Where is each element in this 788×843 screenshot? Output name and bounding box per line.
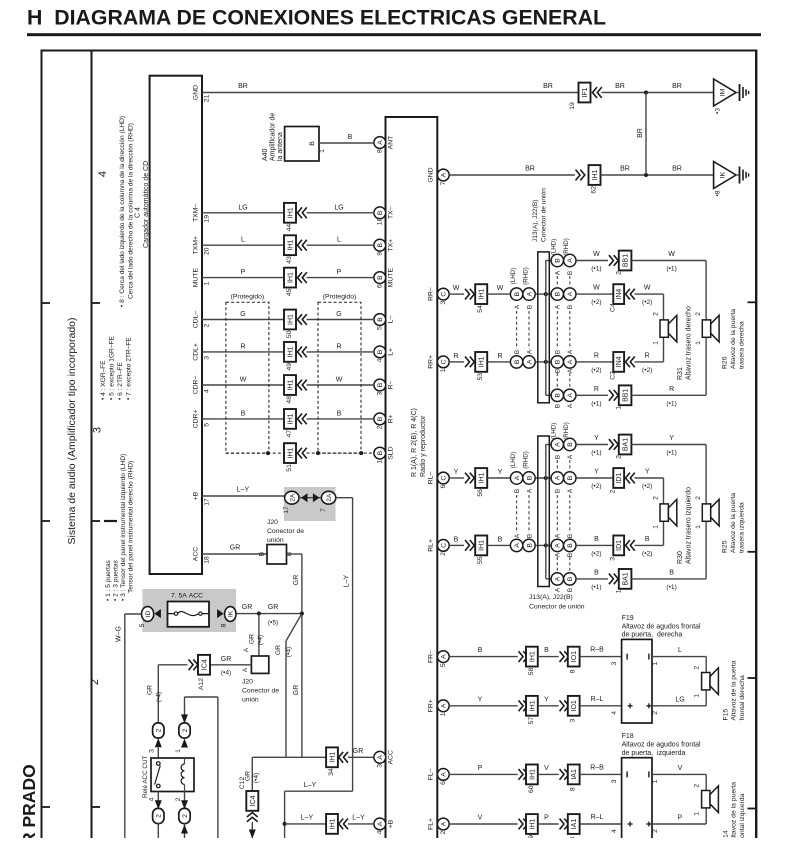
svg-text:A: A — [441, 172, 448, 177]
svg-text:Y: Y — [645, 469, 650, 476]
svg-text:R: R — [453, 353, 458, 360]
svg-text:A12: A12 — [198, 678, 205, 690]
svg-text:B: B — [567, 534, 574, 538]
svg-text:P: P — [337, 269, 342, 276]
svg-text:1: 1 — [440, 368, 447, 372]
svg-text:GR: GR — [221, 656, 232, 663]
svg-text:BR: BR — [615, 83, 625, 90]
svg-text:2A: 2A — [289, 493, 296, 502]
svg-text:A: A — [441, 772, 448, 777]
svg-text:A: A — [527, 349, 534, 354]
svg-text:RR+: RR+ — [428, 355, 435, 369]
svg-text:1: 1 — [319, 149, 326, 153]
svg-text:B: B — [377, 317, 384, 322]
svg-text:Y: Y — [594, 469, 599, 476]
svg-text:B: B — [309, 141, 316, 146]
svg-text:57: 57 — [528, 717, 535, 725]
svg-text:R31: R31 — [677, 367, 684, 380]
svg-text:C: C — [441, 475, 448, 480]
svg-text:B: B — [527, 305, 534, 309]
svg-text:BR: BR — [672, 83, 682, 90]
svg-text:A: A — [567, 368, 574, 373]
svg-text:Altavoz de agudos frontal: Altavoz de agudos frontal — [622, 742, 701, 749]
svg-text:1: 1 — [616, 589, 623, 593]
svg-text:IH1: IH1 — [288, 207, 295, 218]
svg-text:Altavoz de la puerta: Altavoz de la puerta — [730, 493, 737, 553]
svg-text:R: R — [240, 343, 245, 350]
svg-text:TX+: TX+ — [388, 239, 395, 252]
svg-text:W: W — [497, 285, 504, 292]
svg-text:3: 3 — [611, 661, 618, 665]
svg-text:2: 2 — [182, 814, 189, 818]
svg-text:A: A — [377, 821, 384, 826]
svg-text:2: 2 — [695, 496, 702, 500]
svg-text:Radio y reproductor: Radio y reproductor — [420, 415, 427, 477]
svg-text:RL–: RL– — [428, 472, 435, 485]
svg-text:3: 3 — [440, 301, 447, 305]
svg-text:B: B — [669, 569, 674, 576]
svg-text:GR: GR — [293, 575, 300, 586]
svg-text:B: B — [377, 416, 384, 421]
svg-text:(RHD): (RHD) — [563, 238, 570, 256]
svg-text:IH1: IH1 — [529, 700, 536, 711]
svg-text:W: W — [593, 285, 600, 292]
svg-text:(•4): (•4) — [286, 647, 293, 657]
svg-text:2: 2 — [616, 271, 623, 275]
svg-text:W: W — [336, 377, 343, 384]
svg-text:IC4: IC4 — [250, 795, 257, 806]
svg-text:55: 55 — [477, 556, 484, 564]
svg-text:47: 47 — [286, 430, 293, 438]
svg-text:IF1: IF1 — [582, 87, 589, 97]
svg-text:R 1(A), R 2(B), R 4(C): R 1(A), R 2(B), R 4(C) — [411, 408, 418, 477]
svg-text:W: W — [453, 285, 460, 292]
svg-text:B: B — [377, 382, 384, 387]
svg-text:R–B: R–B — [590, 647, 604, 654]
svg-text:(•1): (•1) — [666, 450, 676, 457]
svg-text:IM: IM — [720, 88, 727, 96]
svg-text:A: A — [555, 442, 562, 447]
svg-text:(•2): (•2) — [642, 550, 652, 557]
svg-text:Conector de unión: Conector de unión — [529, 604, 585, 611]
svg-text:Altavoz de la puerta: Altavoz de la puerta — [730, 309, 737, 369]
svg-text:A: A — [555, 587, 562, 592]
svg-text:Conector de unión: Conector de unión — [541, 188, 548, 242]
svg-text:R25: R25 — [722, 540, 729, 553]
svg-text:B: B — [555, 393, 562, 398]
svg-text:• 3 : Tensor del panel instrum: • 3 : Tensor del panel instrumental izqu… — [120, 454, 127, 601]
svg-text:frontal derecha: frontal derecha — [739, 675, 746, 721]
svg-text:1: 1 — [653, 525, 660, 529]
svg-text:J13(A), J22(B): J13(A), J22(B) — [532, 199, 539, 242]
svg-text:B: B — [555, 350, 562, 354]
svg-text:1: 1 — [652, 779, 659, 783]
svg-text:1: 1 — [653, 341, 660, 345]
svg-text:2: 2 — [652, 711, 659, 715]
svg-text:B: B — [478, 647, 483, 654]
svg-text:IK: IK — [228, 610, 235, 617]
svg-text:CDR+: CDR+ — [193, 410, 200, 429]
svg-text:A: A — [555, 533, 562, 538]
svg-text:W: W — [668, 251, 675, 258]
svg-text:RR–: RR– — [428, 287, 435, 301]
svg-text:1: 1 — [376, 460, 383, 464]
svg-text:19: 19 — [203, 215, 210, 223]
svg-text:3: 3 — [376, 391, 383, 395]
svg-text:CDL+: CDL+ — [193, 343, 200, 361]
svg-text:B: B — [514, 350, 521, 354]
svg-text:FL–: FL– — [428, 768, 435, 780]
svg-text:R+: R+ — [388, 414, 395, 423]
svg-text:(•2): (•2) — [642, 483, 652, 490]
svg-text:J13(A), J22(B): J13(A), J22(B) — [529, 594, 573, 601]
svg-text:B: B — [259, 551, 266, 556]
svg-text:R–B: R–B — [590, 764, 604, 771]
svg-text:48: 48 — [286, 396, 293, 404]
svg-text:45: 45 — [286, 288, 293, 296]
svg-text:MUTE: MUTE — [193, 268, 200, 288]
svg-text:A: A — [527, 488, 534, 493]
svg-text:BR: BR — [525, 166, 535, 173]
svg-text:Cargador automático de CD: Cargador automático de CD — [143, 161, 150, 248]
svg-text:Altavoz trasero derecho: Altavoz trasero derecho — [686, 306, 693, 380]
svg-text:• 8 : Cerca del lado izquierdo: • 8 : Cerca del lado izquierdo de la col… — [119, 116, 126, 307]
svg-text:W: W — [593, 251, 600, 258]
svg-text:3: 3 — [376, 764, 383, 768]
svg-text:43: 43 — [286, 256, 293, 264]
svg-text:49: 49 — [286, 363, 293, 371]
svg-text:4: 4 — [611, 711, 618, 715]
svg-text:51: 51 — [286, 464, 293, 472]
svg-text:B: B — [555, 369, 562, 373]
svg-text:ANT: ANT — [388, 136, 395, 150]
svg-text:+B: +B — [388, 819, 395, 828]
svg-text:R30: R30 — [677, 551, 684, 564]
svg-text:53: 53 — [477, 373, 484, 381]
svg-text:2: 2 — [175, 797, 182, 801]
svg-text:60: 60 — [528, 785, 535, 793]
svg-text:8: 8 — [570, 787, 577, 791]
svg-text:GR: GR — [230, 545, 241, 552]
svg-text:6: 6 — [376, 284, 383, 288]
svg-text:IH1: IH1 — [479, 540, 486, 551]
svg-text:2: 2 — [156, 814, 163, 818]
svg-text:IH1: IH1 — [288, 346, 295, 357]
svg-text:B: B — [377, 450, 384, 455]
svg-text:3: 3 — [203, 356, 210, 360]
svg-text:IH1: IH1 — [479, 356, 486, 367]
svg-text:GR: GR — [293, 685, 300, 696]
svg-text:8: 8 — [570, 669, 577, 673]
svg-text:B: B — [555, 489, 562, 493]
svg-text:L–Y: L–Y — [352, 815, 365, 822]
svg-text:A: A — [567, 393, 574, 398]
svg-text:56: 56 — [477, 489, 484, 497]
svg-text:BR: BR — [238, 83, 248, 90]
svg-text:B: B — [514, 291, 521, 296]
svg-text:GR: GR — [353, 748, 364, 755]
svg-text:L–Y: L–Y — [344, 574, 351, 587]
svg-text:B: B — [377, 349, 384, 354]
svg-text:58: 58 — [528, 667, 535, 675]
svg-text:GR: GR — [147, 685, 154, 695]
svg-text:A: A — [441, 654, 448, 659]
svg-text:(RHD): (RHD) — [563, 422, 570, 440]
svg-text:5: 5 — [139, 623, 146, 627]
svg-text:2A: 2A — [326, 493, 333, 502]
svg-text:Y: Y — [478, 696, 483, 703]
svg-text:10: 10 — [376, 217, 383, 225]
svg-text:F15: F15 — [723, 709, 730, 721]
svg-text:B: B — [454, 536, 459, 543]
svg-text:A: A — [567, 359, 574, 364]
svg-text:FR–: FR– — [428, 650, 435, 663]
svg-text:(•4): (•4) — [156, 692, 163, 702]
svg-text:3: 3 — [570, 718, 577, 722]
svg-text:IA1: IA1 — [571, 769, 578, 780]
svg-text:B: B — [527, 534, 534, 538]
svg-text:B: B — [594, 569, 599, 576]
svg-text:Tensor del panel instrumental: Tensor del panel instrumental derecho (R… — [128, 461, 135, 593]
svg-text:Y: Y — [669, 435, 674, 442]
svg-text:L–: L– — [388, 316, 395, 324]
svg-text:7: 7 — [320, 508, 327, 512]
svg-text:(•4): (•4) — [257, 635, 264, 645]
svg-text:B: B — [348, 134, 353, 141]
svg-text:G: G — [336, 311, 341, 318]
svg-text:ID1: ID1 — [616, 472, 623, 483]
svg-text:IO1: IO1 — [571, 651, 578, 662]
svg-text:(•1): (•1) — [666, 584, 676, 591]
svg-text:Amplificador de: Amplificador de — [270, 113, 277, 161]
svg-text:(•4): (•4) — [221, 670, 231, 677]
svg-text:(•1): (•1) — [666, 400, 676, 407]
svg-text:IO1: IO1 — [571, 700, 578, 711]
svg-text:B: B — [514, 359, 521, 364]
svg-text:unión: unión — [242, 697, 259, 704]
svg-text:3: 3 — [610, 557, 617, 561]
svg-text:• 6 : 2TR–FE: • 6 : 2TR–FE — [117, 362, 124, 400]
svg-text:B: B — [498, 536, 503, 543]
svg-text:la antena: la antena — [277, 132, 284, 161]
svg-text:BR: BR — [620, 166, 630, 173]
svg-text:ACC: ACC — [388, 750, 395, 764]
svg-text:A: A — [514, 304, 521, 309]
svg-text:1: 1 — [694, 812, 701, 816]
svg-text:Altavoz trasero izquierdo: Altavoz trasero izquierdo — [686, 487, 693, 564]
svg-text:GR: GR — [242, 604, 253, 611]
svg-text:Cerca del lado derecho de la c: Cerca del lado derecho de la columna de … — [128, 123, 135, 299]
svg-text:B: B — [544, 647, 549, 654]
svg-text:R–L: R–L — [591, 696, 604, 703]
svg-text:A: A — [567, 454, 574, 459]
svg-text:A: A — [514, 533, 521, 538]
svg-text:1: 1 — [440, 712, 447, 716]
svg-text:7. 5A ACC: 7. 5A ACC — [171, 593, 203, 600]
svg-text:TXM+: TXM+ — [193, 236, 200, 254]
svg-text:1: 1 — [695, 525, 702, 529]
svg-text:IH1: IH1 — [479, 472, 486, 483]
svg-text:W: W — [644, 285, 651, 292]
svg-text:C: C — [441, 292, 448, 297]
svg-text:G: G — [240, 311, 245, 318]
svg-text:Sistema de audio (Amplificador: Sistema de audio (Amplificador tipo inco… — [66, 317, 78, 544]
svg-text:B: B — [555, 359, 562, 364]
svg-text:R: R — [594, 386, 599, 393]
svg-text:(RHD): (RHD) — [523, 451, 530, 469]
svg-text:J20: J20 — [267, 519, 278, 526]
svg-text:(•1): (•1) — [591, 266, 601, 273]
svg-text:ID1: ID1 — [616, 540, 623, 551]
svg-text:5: 5 — [376, 326, 383, 330]
svg-text:B: B — [526, 543, 533, 548]
svg-text:L–Y: L–Y — [301, 815, 314, 822]
svg-text:B: B — [555, 404, 562, 408]
svg-text:Altavoz de la puerta: Altavoz de la puerta — [731, 782, 738, 838]
svg-text:A: A — [567, 403, 574, 408]
svg-text:A: A — [567, 291, 574, 296]
svg-text:BR: BR — [672, 166, 682, 173]
svg-text:L: L — [678, 647, 682, 654]
svg-text:6: 6 — [440, 781, 447, 785]
svg-text:4: 4 — [203, 389, 210, 393]
svg-text:A: A — [526, 359, 533, 364]
svg-text:R: R — [645, 352, 650, 359]
svg-text:C2: C2 — [610, 371, 617, 380]
svg-text:2: 2 — [440, 552, 447, 556]
svg-text:• 2 : 3 puertas: • 2 : 3 puertas — [113, 560, 120, 601]
svg-text:2: 2 — [156, 728, 163, 732]
svg-text:C4: C4 — [610, 303, 617, 312]
svg-text:2: 2 — [695, 312, 702, 316]
svg-text:4: 4 — [611, 829, 618, 833]
svg-text:IH1: IH1 — [288, 413, 295, 424]
svg-text:BA1: BA1 — [623, 572, 630, 585]
svg-text:2: 2 — [610, 489, 617, 493]
svg-text:A: A — [567, 349, 574, 354]
svg-text:L: L — [241, 237, 245, 244]
svg-text:5: 5 — [203, 423, 210, 427]
svg-text:GR: GR — [275, 645, 282, 655]
svg-text:Y: Y — [594, 435, 599, 442]
svg-text:1: 1 — [652, 661, 659, 665]
svg-text:BB1: BB1 — [623, 389, 630, 402]
svg-text:L–Y: L–Y — [237, 487, 250, 494]
svg-text:CDR–: CDR– — [193, 376, 200, 395]
svg-text:R: R — [336, 343, 341, 350]
svg-text:F18: F18 — [622, 733, 634, 740]
svg-text:P: P — [241, 269, 246, 276]
svg-text:1: 1 — [694, 694, 701, 698]
svg-text:B: B — [514, 489, 521, 493]
svg-text:IA1: IA1 — [571, 819, 578, 830]
svg-text:2: 2 — [203, 323, 210, 327]
svg-text:(•2): (•2) — [591, 483, 601, 490]
svg-text:IH1: IH1 — [592, 169, 599, 180]
svg-text:IN4: IN4 — [616, 289, 623, 300]
svg-text:4: 4 — [376, 358, 383, 362]
svg-text:TX–: TX– — [388, 206, 395, 219]
svg-text:17: 17 — [203, 498, 210, 506]
svg-text:B: B — [555, 455, 562, 459]
svg-text:RL+: RL+ — [428, 539, 435, 552]
svg-text:frontal izquierda: frontal izquierda — [739, 793, 746, 838]
svg-text:(Protegido): (Protegido) — [323, 294, 357, 301]
svg-text:B: B — [377, 275, 384, 280]
svg-text:1: 1 — [695, 341, 702, 345]
svg-text:BR: BR — [543, 83, 553, 90]
svg-text:3: 3 — [92, 427, 104, 433]
svg-text:1: 1 — [203, 281, 210, 285]
svg-text:B: B — [567, 553, 574, 557]
svg-text:A: A — [377, 140, 384, 145]
svg-text:A: A — [555, 576, 562, 581]
svg-text:34: 34 — [328, 768, 335, 776]
svg-text:LG: LG — [675, 696, 684, 703]
svg-text:62: 62 — [591, 186, 598, 194]
svg-text:IH1: IH1 — [529, 651, 536, 662]
svg-text:ACC: ACC — [193, 547, 200, 561]
svg-text:1: 1 — [175, 749, 182, 753]
svg-text:A: A — [526, 291, 533, 296]
svg-text:GR: GR — [249, 634, 256, 644]
svg-text:B: B — [567, 588, 574, 592]
svg-text:GR: GR — [268, 604, 279, 611]
svg-text:6: 6 — [440, 484, 447, 488]
svg-text:IK: IK — [720, 171, 727, 178]
svg-text:• 7 : excepto 2TR–FE: • 7 : excepto 2TR–FE — [126, 337, 133, 400]
svg-text:B: B — [555, 291, 562, 296]
svg-text:(•1): (•1) — [591, 450, 601, 457]
svg-text:CDL–: CDL– — [193, 311, 200, 329]
svg-text:4: 4 — [376, 830, 383, 834]
svg-text:A: A — [514, 475, 521, 480]
svg-text:BB1: BB1 — [623, 254, 630, 267]
svg-text:B: B — [377, 242, 384, 247]
svg-text:L+: L+ — [388, 348, 395, 356]
svg-text:LG: LG — [238, 204, 247, 211]
svg-text:IH1: IH1 — [330, 818, 337, 829]
svg-text:A: A — [514, 543, 521, 548]
svg-text:2: 2 — [652, 829, 659, 833]
svg-text:8: 8 — [220, 623, 227, 627]
svg-text:(•2): (•2) — [642, 367, 652, 374]
svg-text:Altavoz de la puerta: Altavoz de la puerta — [731, 660, 738, 720]
svg-text:P: P — [478, 765, 483, 772]
svg-text:Y: Y — [498, 469, 503, 476]
svg-text:A: A — [555, 304, 562, 309]
svg-text:B: B — [526, 475, 533, 480]
svg-text:2: 2 — [694, 666, 701, 670]
svg-text:P: P — [544, 815, 549, 822]
svg-text:• 4 : XGR–FE: • 4 : XGR–FE — [100, 360, 107, 400]
svg-text:trasera derecha: trasera derecha — [739, 321, 746, 369]
svg-text:2: 2 — [440, 830, 447, 834]
svg-text:2: 2 — [694, 784, 701, 788]
svg-text:MUTE: MUTE — [388, 268, 395, 288]
svg-text:• 5 : excepto 1GR–FE: • 5 : excepto 1GR–FE — [109, 336, 116, 400]
svg-text:IH1: IH1 — [288, 314, 295, 325]
svg-text:SLD: SLD — [388, 446, 395, 459]
svg-text:2: 2 — [376, 425, 383, 429]
svg-text:(•5): (•5) — [268, 620, 278, 627]
svg-text:H DIAGRAMA DE CONEXIONES ELEC: H DIAGRAMA DE CONEXIONES ELECTRICAS GENE… — [27, 6, 606, 30]
svg-text:44: 44 — [286, 224, 293, 232]
svg-text:B: B — [567, 576, 574, 581]
svg-text:2: 2 — [182, 728, 189, 732]
svg-text:+B: +B — [193, 491, 200, 500]
svg-text:Y: Y — [454, 469, 459, 476]
